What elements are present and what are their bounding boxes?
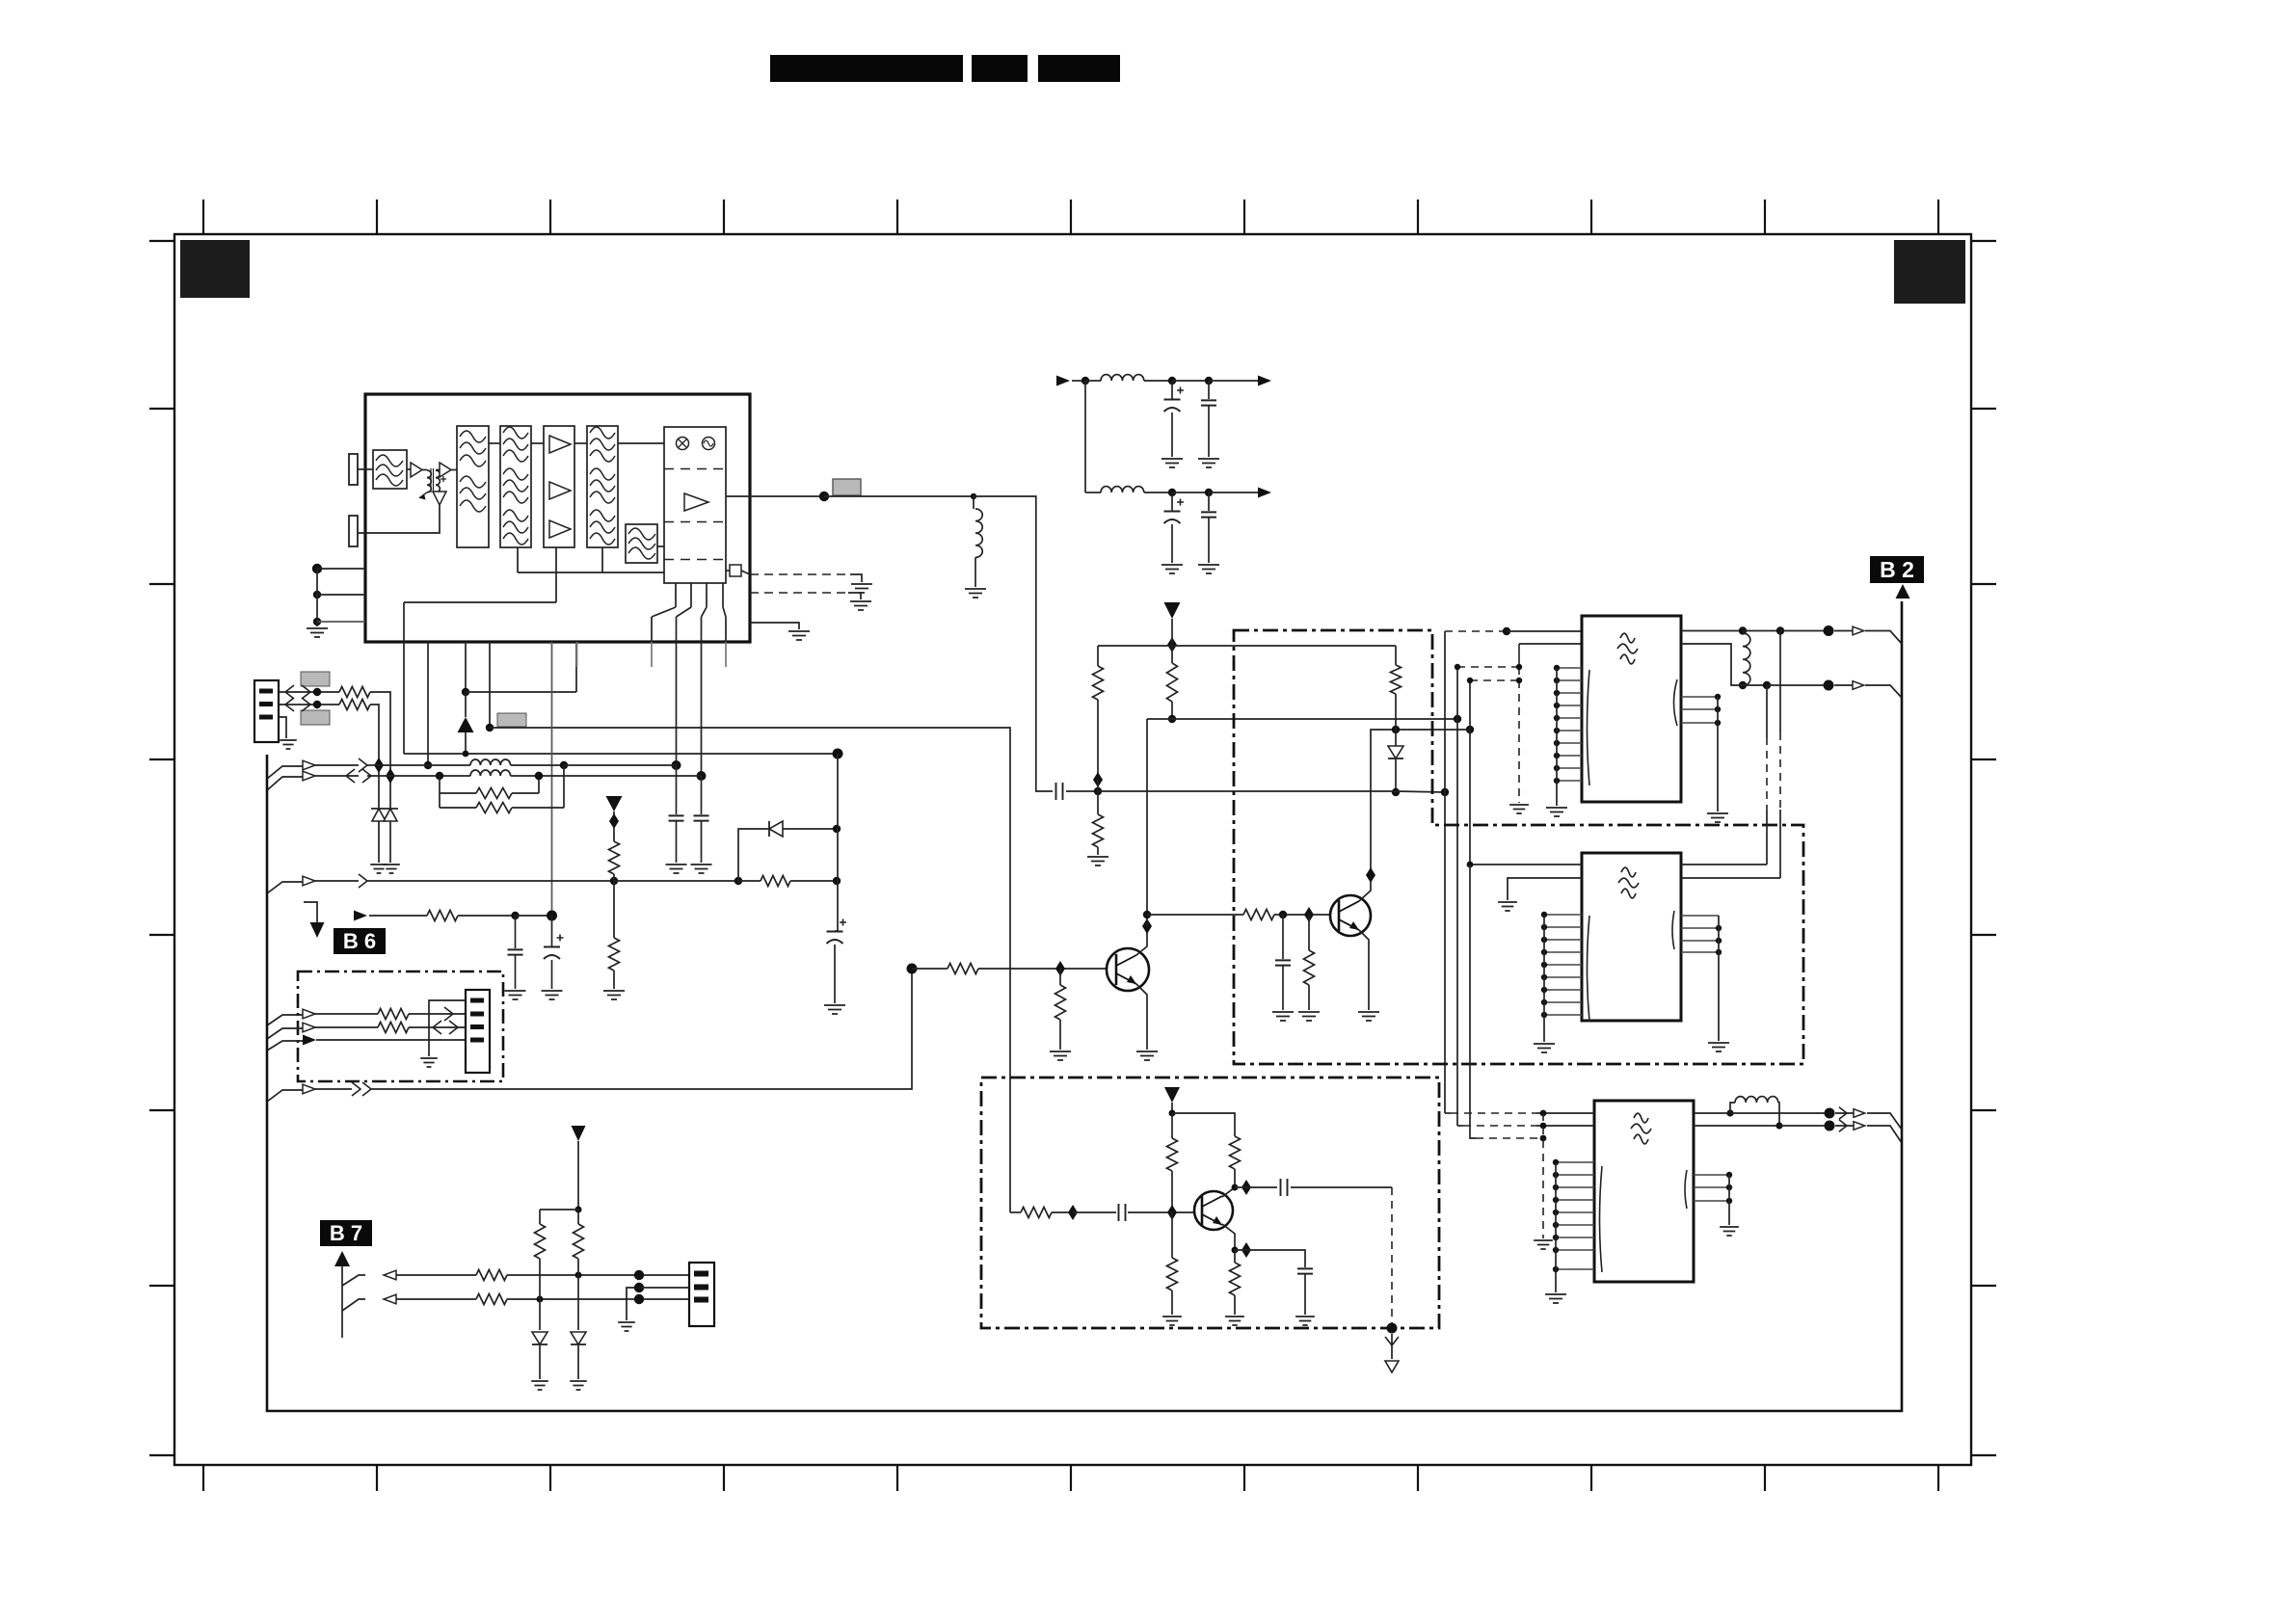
wire x1512 up bbox=[1456, 667, 1458, 719]
junction row2 cap1 bbox=[1168, 489, 1176, 496]
wire FL3-A3 bbox=[531, 442, 544, 444]
ground U3 left bbox=[1534, 1044, 1555, 1052]
ground AGC bbox=[851, 584, 872, 593]
junction x1448 822 bbox=[1392, 788, 1400, 796]
junction x1847 out1 bbox=[1776, 626, 1784, 634]
wire pin 598 stub bbox=[576, 642, 578, 667]
wire row2 b bbox=[1172, 492, 1209, 493]
junction x1563 bbox=[1503, 627, 1510, 635]
dashed feed U2-1 bbox=[1444, 631, 1446, 792]
U3 core mark bbox=[1621, 867, 1636, 877]
wire line950 c bbox=[516, 915, 552, 917]
ground x1576 bbox=[1509, 805, 1529, 813]
wire Q2 collector stub bbox=[1359, 875, 1371, 901]
U4 left winding bracket bbox=[1600, 1166, 1603, 1272]
wire x1525 to U4 gnd row bbox=[1470, 865, 1476, 1138]
junction lineB7-1 c bbox=[634, 1270, 644, 1280]
junction lineB7-1 R bbox=[575, 1272, 582, 1279]
wire x1525 down bbox=[1469, 730, 1471, 865]
chevron U4 out2 bbox=[1839, 1120, 1847, 1132]
amp buffer A2 bbox=[440, 463, 451, 477]
junction x1216 rail746 bbox=[1168, 715, 1176, 723]
wire lineB6-3 bbox=[316, 1039, 466, 1041]
wire line2 b bbox=[367, 775, 470, 777]
U2 left pins bbox=[1554, 665, 1582, 784]
inductor line2 coil bbox=[470, 770, 511, 776]
wire supply rail 670 bbox=[1098, 645, 1396, 647]
wire FL1 out bbox=[407, 468, 411, 470]
capacitor ceramic row2 bbox=[1208, 492, 1210, 511]
wire CN1 pin2 bbox=[279, 704, 339, 705]
inductor line1 coil bbox=[470, 759, 511, 765]
junction x1140 diamond bbox=[1093, 772, 1103, 787]
resistor Q3 base lower bbox=[1171, 1212, 1173, 1258]
wire x1140 b bbox=[1097, 780, 1099, 814]
ground row2 cap1 bbox=[1161, 565, 1183, 573]
resistor damping B bbox=[440, 807, 476, 809]
wire line2 a bbox=[315, 775, 359, 777]
resistor lineB6-1 bbox=[378, 1009, 409, 1020]
transistor Q3 bbox=[1194, 1191, 1233, 1230]
junction B7 supply bbox=[575, 1207, 582, 1213]
ground AFT bbox=[850, 601, 871, 610]
junction zener line1 bbox=[374, 758, 384, 773]
dashed gnd drop x1576 bbox=[1518, 644, 1520, 667]
arrow up B7 bbox=[334, 1251, 350, 1266]
ground IF coil bbox=[965, 589, 986, 598]
junction row1 bbox=[1081, 377, 1089, 385]
U1 input pin 1 bbox=[349, 454, 358, 485]
IC U3 transformer bbox=[1582, 853, 1681, 1021]
arrow U4 out2 bbox=[1854, 1122, 1865, 1131]
redacted title block 2 bbox=[972, 55, 1028, 82]
inductor IF shunt coil bbox=[973, 496, 974, 509]
resistor lineB7-1 bbox=[476, 1270, 507, 1281]
wire osc in c bbox=[1073, 1211, 1116, 1213]
wire pin 753 stub bbox=[725, 642, 727, 667]
wire supply rail 782 bbox=[404, 753, 838, 755]
wire B7 bus bbox=[341, 1266, 343, 1338]
wire osc input bbox=[1010, 1211, 1021, 1213]
junction U4 in2 bbox=[1540, 1123, 1547, 1130]
U4 right pins bbox=[1694, 1172, 1732, 1204]
redacted corner block top-left bbox=[180, 240, 250, 298]
junction osc supply bbox=[1169, 1110, 1176, 1117]
junction diode top bbox=[1392, 726, 1400, 733]
junction line3 end bbox=[833, 877, 841, 885]
wire left bus stub1 bbox=[267, 766, 303, 779]
redacted title block 3 bbox=[1038, 55, 1120, 82]
svg-text:B 2: B 2 bbox=[1880, 557, 1914, 582]
junction zener line2 bbox=[386, 768, 395, 784]
wire pin2 to zener bbox=[370, 705, 379, 811]
wire IF output bbox=[726, 495, 824, 497]
junction Q3 out edge bbox=[1387, 1323, 1398, 1334]
wire Q3 out b bbox=[1291, 1186, 1392, 1188]
junction line3 R bbox=[610, 877, 618, 885]
arrow supply row2 out bbox=[1258, 488, 1271, 498]
U4 left pins bbox=[1553, 1159, 1594, 1272]
junction pin508 bbox=[486, 724, 494, 732]
ground U4 right bbox=[1720, 1227, 1739, 1236]
wire U4 out1 merge bbox=[1835, 1113, 1902, 1130]
resistor osc R2 bbox=[1230, 1136, 1241, 1169]
resistor Q2 base bbox=[1243, 910, 1274, 920]
wire left bus stub4 bbox=[267, 1090, 303, 1102]
capacitor electrolytic row2 bbox=[1171, 492, 1173, 511]
frame ticks bottom bbox=[203, 1465, 1938, 1491]
amp block A3 bbox=[544, 426, 574, 547]
wire to B6 bbox=[304, 902, 317, 922]
wire Q1 base b bbox=[978, 968, 1107, 970]
junction Q3 collector diamond bbox=[1241, 1180, 1251, 1195]
arrow lineB6-1 bbox=[303, 1009, 315, 1019]
wire U4 out2 merge bbox=[1835, 1126, 1902, 1143]
wire line4 a bbox=[315, 1088, 352, 1090]
border frame bbox=[174, 234, 1971, 1465]
wire lineB7-1 b bbox=[507, 1274, 689, 1276]
wire A2 to FL2 bbox=[451, 469, 457, 471]
junction U4 in1 bbox=[1540, 1110, 1547, 1117]
junction x637 bbox=[609, 813, 619, 829]
wire U3 in 2 bbox=[1508, 878, 1582, 900]
junction row1 cap2 bbox=[1205, 377, 1213, 385]
wire line3 c bbox=[614, 880, 738, 882]
resistor x1216 bbox=[1167, 663, 1178, 702]
transistor Q2 bbox=[1330, 895, 1371, 936]
wire U2 pin bus bbox=[1556, 668, 1558, 806]
junction lineB7-2 c bbox=[634, 1294, 644, 1304]
wire pin727 cap bbox=[701, 776, 703, 814]
arrow supply down B7 bbox=[572, 1126, 586, 1141]
filter FL1 input bandpass bbox=[373, 450, 407, 489]
junction line950 cap1 bbox=[511, 912, 519, 919]
wire arrow to rail bbox=[465, 732, 467, 754]
U3 right pins bbox=[1681, 916, 1722, 955]
wire pin 444 bbox=[427, 642, 429, 765]
U3 left winding bracket bbox=[1588, 916, 1590, 1022]
ground U3 right bbox=[1708, 1043, 1729, 1051]
resistor CN1 pin2 bbox=[339, 700, 370, 710]
wire pin 727 bbox=[701, 642, 703, 776]
arrow supply row1 out bbox=[1258, 376, 1271, 386]
resistor damping A bbox=[436, 772, 443, 780]
resistor Q1 base bbox=[948, 964, 978, 974]
resistor line950 bbox=[427, 911, 458, 921]
wire osc output down bbox=[1391, 1334, 1393, 1359]
capacitor osc coupling bbox=[1056, 783, 1063, 800]
ground pin727 bbox=[691, 865, 712, 873]
U2 left winding bracket bbox=[1588, 670, 1590, 785]
ground B7 D1 bbox=[531, 1381, 548, 1390]
arrow U2 out2 bbox=[1853, 681, 1864, 690]
capacitor bypass pin701 bbox=[669, 815, 684, 820]
wire row1-row2 link bbox=[1084, 381, 1086, 492]
ground Q3 base R bbox=[1162, 1317, 1182, 1325]
wire x1512 to U4 bbox=[1457, 1125, 1463, 1127]
wire left bus stubB6a bbox=[267, 1015, 303, 1025]
junction Q1 base bbox=[1055, 961, 1065, 976]
wire rail 755 bbox=[490, 728, 1010, 1212]
wire CN1 pin3 gnd bbox=[279, 717, 286, 738]
diode B7 D2 bbox=[577, 1275, 579, 1330]
wire U1 left pin A bbox=[317, 568, 365, 570]
wire U2 input top bbox=[1507, 630, 1582, 632]
svg-text:B 6: B 6 bbox=[343, 929, 376, 953]
chevron U4 out1 bbox=[1839, 1107, 1847, 1120]
svg-text:B 7: B 7 bbox=[330, 1221, 362, 1245]
filter block FL2 bbox=[457, 426, 489, 547]
resistor Q3 emitter bbox=[1234, 1250, 1236, 1263]
capacitor electrolytic x572 bbox=[551, 916, 553, 946]
junction U4 out1 coil bbox=[1726, 1109, 1733, 1116]
ground U3 in2 bbox=[1498, 902, 1517, 911]
ground zener 2 bbox=[383, 865, 400, 873]
resistor x1140 bbox=[1097, 646, 1099, 666]
U4 core mark bbox=[1634, 1113, 1648, 1123]
ground row1 cap1 bbox=[1161, 459, 1183, 467]
arrow supply down x637 bbox=[606, 796, 623, 811]
junction x1216 supply bbox=[1167, 637, 1177, 652]
wire left bus stub2 bbox=[267, 777, 303, 790]
junction Q3 emitter diamond bbox=[1241, 1242, 1251, 1258]
inductor L row1 bbox=[1085, 380, 1101, 382]
wire IF to osc bbox=[974, 496, 1053, 791]
wire FL2-FL3 bbox=[489, 442, 500, 444]
wire U4 right pin bus bbox=[1728, 1175, 1730, 1225]
arrow supply row1 in bbox=[1056, 376, 1070, 386]
wire pin 701 bbox=[676, 642, 678, 765]
ground pin701 bbox=[666, 865, 687, 873]
arrow lineB7-1 bbox=[384, 1270, 396, 1280]
wire line1 b bbox=[367, 764, 428, 766]
junction U4 out1 big bbox=[1825, 1108, 1835, 1119]
wire U2 out1 merge bbox=[1834, 631, 1902, 645]
wire U2 out2 merge bbox=[1834, 685, 1902, 698]
inductor U4 output coil bbox=[1730, 1103, 1735, 1113]
wire row2 bbox=[1085, 492, 1101, 493]
wire B7 supply link bbox=[540, 1209, 578, 1211]
arrow osc output end bbox=[1385, 1361, 1399, 1372]
arrow supply down osc bbox=[1164, 1087, 1180, 1103]
junction IF coil tap bbox=[971, 493, 976, 499]
wire lineB6-1 b bbox=[409, 1013, 466, 1015]
capacitor osc series bbox=[1119, 1204, 1126, 1221]
wire Q1 emitter bbox=[1136, 984, 1147, 1050]
wire U4 out1 b bbox=[1730, 1112, 1825, 1114]
frame ticks top bbox=[203, 200, 1938, 234]
dash-dot box B6 bbox=[298, 971, 503, 1081]
U1 right edge pin symbol bbox=[730, 565, 741, 576]
arrow supply up bbox=[458, 717, 474, 732]
IC U2 transformer bbox=[1582, 616, 1681, 802]
resistor lineB7-2 bbox=[476, 1294, 507, 1305]
junction Q2 cap tap bbox=[1279, 911, 1287, 918]
wire U4 out2 b bbox=[1779, 1125, 1825, 1127]
resistor CN1 pin1 bbox=[339, 687, 370, 698]
wire Q2 base line bbox=[1147, 914, 1243, 916]
wire U1 left pin C bbox=[317, 621, 365, 623]
wire pin483 down bbox=[465, 692, 467, 717]
dashed link 692 bbox=[1457, 666, 1519, 668]
ground U1 lower right bbox=[788, 631, 810, 640]
ground bias R x1100 bbox=[1050, 1051, 1071, 1060]
arrow up B2 bbox=[1896, 584, 1910, 599]
dash-dot box Q2-U2 bbox=[1234, 630, 1803, 1064]
wire x1833 link bbox=[1766, 685, 1768, 737]
junction row2 cap2 bbox=[1205, 489, 1213, 496]
wire B7 stub2 bbox=[342, 1299, 365, 1311]
capacitor Q3 emitter bbox=[1297, 1268, 1313, 1273]
wire link 718 bbox=[466, 642, 576, 692]
wire x1525 up bbox=[1469, 680, 1471, 730]
chevron CN1 pin2 bbox=[285, 698, 310, 711]
junction CN1 pin2 bbox=[313, 701, 321, 708]
ground row1 cap2 bbox=[1198, 459, 1219, 467]
arrow line950 bbox=[354, 911, 367, 921]
wire U2 out2 b bbox=[1767, 684, 1825, 686]
arrow line4 in bbox=[303, 1084, 315, 1094]
wire diode to node bbox=[783, 828, 837, 830]
wire IF output 2 bbox=[824, 495, 974, 497]
ground U2 left bbox=[1546, 808, 1567, 816]
wire pin 572 bbox=[551, 642, 553, 916]
chevrons lineB6-2 bbox=[433, 1021, 458, 1034]
resistor x637 lower bbox=[613, 881, 615, 938]
wire x1847 link bbox=[1779, 631, 1781, 733]
arrow U4 out1 bbox=[1854, 1109, 1865, 1118]
wire x637 a bbox=[613, 811, 615, 817]
junction U2 out2 coil bbox=[1739, 681, 1747, 689]
redacted corner block top-right bbox=[1894, 240, 1965, 304]
arrow U2 out1 bbox=[1853, 626, 1864, 635]
U1 internal bus wires bbox=[404, 547, 726, 642]
junction osc in bbox=[1068, 1205, 1078, 1220]
dashed wire U1 AFT bbox=[750, 592, 848, 594]
zener diode pair bbox=[371, 808, 398, 810]
U2 core mark bbox=[1620, 633, 1635, 643]
wire node 869 vertical bbox=[837, 754, 839, 931]
junction line1 tap bbox=[560, 761, 568, 769]
junction Q2 collector bbox=[1366, 867, 1375, 883]
wire U4 pin bus bbox=[1555, 1162, 1557, 1292]
dashed link 706 bbox=[1470, 679, 1519, 681]
wire rail 746 bbox=[1147, 718, 1457, 720]
junction row1 cap1 bbox=[1168, 377, 1176, 385]
wire pin 483 bbox=[465, 642, 467, 692]
U2 right pins bbox=[1681, 694, 1721, 726]
junction Q2 base bbox=[1304, 907, 1314, 922]
wire pin2 to U1 bbox=[358, 505, 440, 533]
arrow lineB7-2 bbox=[384, 1294, 396, 1304]
junction line3 diode tap bbox=[734, 877, 742, 885]
wire U3 right pin bus bbox=[1718, 916, 1720, 1041]
wire Q3 collector bbox=[1222, 1187, 1235, 1197]
transistor Q1 bbox=[1107, 948, 1149, 991]
dash-dot box oscillator bbox=[981, 1078, 1439, 1328]
wire pin1 to filter bbox=[358, 468, 373, 470]
U3 right winding bracket bbox=[1672, 911, 1674, 949]
capacitor ceramic row1 bbox=[1208, 381, 1210, 399]
diode B7 D1 bbox=[539, 1299, 541, 1330]
ground x534 bbox=[505, 991, 526, 999]
ground row2 cap2 bbox=[1198, 565, 1219, 573]
label B7 bbox=[320, 1220, 372, 1246]
wire U4 out1 bbox=[1694, 1112, 1730, 1114]
junction U4 in3 bbox=[1540, 1135, 1547, 1142]
junction q2col line757 bbox=[1466, 726, 1474, 733]
wire Q1 collector up bbox=[1146, 719, 1148, 926]
wire line1 c bbox=[428, 764, 470, 766]
wire Q3 emitter bbox=[1222, 1224, 1235, 1250]
junction Q3 collector bbox=[1232, 1184, 1239, 1191]
wire pin701 cap bbox=[676, 765, 678, 814]
label CN1 pin2 (redacted) bbox=[301, 710, 330, 725]
IC U4 transformer bbox=[1594, 1101, 1694, 1282]
dashed gnd drop x1601 bbox=[1542, 1113, 1544, 1238]
wire CN3 pin2 bbox=[639, 1287, 689, 1289]
wire line950 a bbox=[369, 915, 427, 917]
wire Q1 collector bbox=[1136, 926, 1147, 955]
wire pin 508 bbox=[489, 642, 491, 728]
capacitor bypass pin727 bbox=[694, 815, 709, 820]
ground Q2 bias bbox=[1298, 1012, 1320, 1021]
wire U2 input upper bbox=[1519, 643, 1582, 645]
capacitor electrolytic row1 bbox=[1171, 381, 1173, 399]
wire lineB7-2 b bbox=[507, 1298, 689, 1300]
junction osc node bbox=[1094, 787, 1102, 795]
filter block FL3 bbox=[500, 426, 531, 547]
ground B7 mid bbox=[618, 1322, 635, 1331]
wire x1499 to U4 bbox=[1445, 1112, 1451, 1114]
junction IF output bbox=[819, 492, 829, 501]
wire FL4-MIX bbox=[618, 442, 664, 444]
capacitor ceramic x534 bbox=[515, 916, 517, 948]
capacitor Q3 out bbox=[1281, 1179, 1288, 1196]
redacted title block 1 bbox=[770, 55, 963, 82]
wire pin 676 stub bbox=[651, 642, 653, 667]
junction U2 out1 big bbox=[1824, 625, 1834, 636]
wire B7 stub1 bbox=[342, 1275, 365, 1286]
wire pin1 to zener bbox=[370, 692, 390, 811]
ground x1601 bbox=[1534, 1240, 1553, 1249]
wire osc supply right bbox=[1172, 1113, 1235, 1136]
junction pin483 bbox=[462, 688, 469, 696]
wire U2 out1 bbox=[1681, 630, 1743, 632]
balun transformer T1 bbox=[422, 469, 427, 471]
U3 left pins bbox=[1541, 912, 1582, 1018]
wire U2 out2 bbox=[1681, 644, 1767, 685]
resistor lineB6-2 bbox=[378, 1023, 409, 1033]
chevron line3 bbox=[359, 874, 367, 888]
wire x1216 tie bbox=[1171, 619, 1173, 663]
wire FL5-MIX bbox=[657, 545, 664, 547]
wire row1 b bbox=[1172, 380, 1209, 382]
wire Q2 base b bbox=[1274, 914, 1330, 916]
resistor x1140 lower bbox=[1093, 814, 1104, 847]
diode mixer input bbox=[433, 492, 446, 505]
ground Q2 emitter bbox=[1358, 1012, 1379, 1021]
inductor U2 load coil bbox=[1743, 633, 1750, 685]
junction line950 end bbox=[547, 911, 557, 921]
arrow lineB6-2 bbox=[303, 1023, 315, 1032]
wire line950 b bbox=[458, 915, 516, 917]
frame ticks left bbox=[149, 241, 174, 1455]
wire Q3 emitter cap bbox=[1235, 1250, 1305, 1267]
arrow supply down x1216 bbox=[1164, 602, 1181, 619]
wire osc in d bbox=[1128, 1211, 1195, 1213]
connector CN1 bbox=[254, 680, 279, 742]
